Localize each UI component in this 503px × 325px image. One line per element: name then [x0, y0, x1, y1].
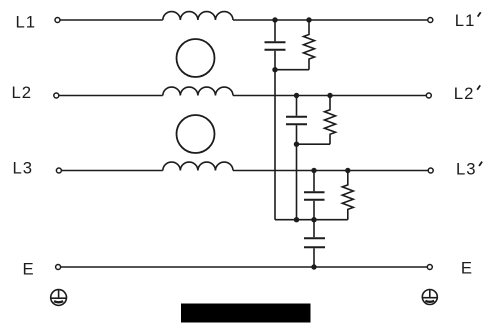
node L2 resistor tap: [327, 93, 332, 98]
terminal L3 left: [56, 168, 61, 173]
wire RC bottom L2: [297, 143, 331, 145]
core circle between L2 and L3: [177, 115, 215, 153]
resistor L3: [342, 171, 353, 220]
svg-text:L2: L2: [454, 84, 475, 103]
capacitor X L2: [286, 96, 307, 145]
ground symbol left: [51, 290, 67, 306]
terminal E right: [427, 265, 432, 270]
node star cap tap: [311, 217, 316, 222]
node L3 resistor tap: [345, 168, 350, 173]
wire E: [61, 266, 427, 268]
wire L2 branch down: [296, 144, 298, 220]
terminal E left: [56, 265, 61, 270]
node L3 cap tap: [311, 168, 316, 173]
svg-text:L3: L3: [456, 159, 477, 178]
svg-text:L2: L2: [12, 83, 33, 102]
resistor L1: [304, 20, 315, 70]
capacitor Y to earth: [304, 220, 325, 267]
wire L1 right segment: [233, 19, 428, 21]
wire L2 right segment: [233, 95, 426, 97]
svg-text:E: E: [23, 259, 34, 278]
terminal L2' right: [426, 93, 431, 98]
node RC bottom L1: [272, 67, 277, 72]
wire L1 left segment: [60, 19, 163, 21]
svg-text:L3: L3: [13, 159, 34, 178]
wire star point: [275, 219, 348, 221]
svg-text:E: E: [461, 259, 472, 278]
wire L2 left segment: [59, 95, 163, 97]
inductor line L1: [163, 12, 233, 20]
wire L3 right segment: [233, 170, 428, 172]
terminal L3' right: [428, 168, 433, 173]
capacitor X L3: [304, 171, 325, 220]
redaction bar: [181, 304, 311, 323]
capacitor X L1: [265, 20, 286, 70]
wire L1 branch down: [274, 70, 276, 220]
inductor line L2: [163, 87, 233, 95]
svg-text:L1: L1: [455, 11, 476, 30]
node E line: [311, 264, 316, 269]
wire RC bottom L1: [275, 69, 309, 71]
core circle between L1 and L2: [177, 39, 215, 77]
node star L2 branch: [294, 217, 299, 222]
node L1 cap tap: [272, 17, 277, 22]
terminal L1' right: [428, 18, 433, 23]
svg-text:L1: L1: [16, 13, 37, 32]
terminal L1 left: [55, 18, 60, 23]
node L1 resistor tap: [306, 17, 311, 22]
ground symbol right: [422, 290, 437, 305]
node RC bottom L2: [294, 142, 299, 147]
resistor L2: [325, 96, 336, 145]
wire L3 left segment: [62, 170, 163, 172]
inductor line L3: [163, 162, 233, 170]
node L2 cap tap: [294, 93, 299, 98]
terminal L2 left: [54, 93, 59, 98]
